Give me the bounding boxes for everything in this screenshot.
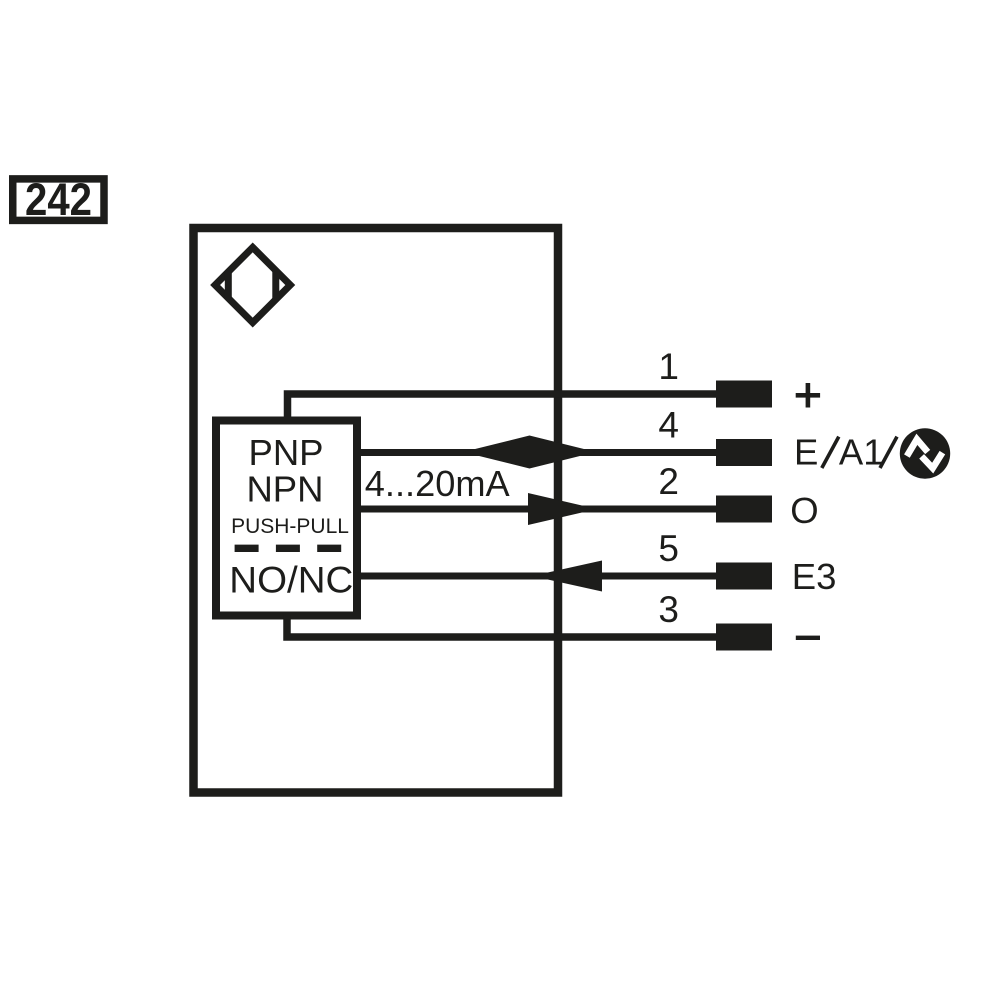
function block box bbox=[216, 421, 357, 616]
input arrow left bbox=[532, 561, 602, 592]
svg-text:3: 3 bbox=[658, 589, 679, 630]
svg-text:4: 4 bbox=[658, 405, 679, 446]
label + bbox=[796, 383, 820, 408]
svg-text:PNP: PNP bbox=[248, 432, 323, 473]
figure label box 242 bbox=[13, 179, 104, 221]
svg-text:2: 2 bbox=[658, 461, 679, 502]
svg-text:NO/NC: NO/NC bbox=[229, 559, 353, 601]
wire 3 (-) bbox=[287, 615, 717, 637]
svg-text:5: 5 bbox=[658, 528, 679, 569]
terminal 1 bbox=[716, 381, 772, 408]
terminal 3 bbox=[716, 624, 772, 651]
svg-text:4...20mA: 4...20mA bbox=[365, 463, 511, 504]
wire 1 (+) bbox=[288, 394, 718, 417]
svg-text:E: E bbox=[794, 432, 818, 473]
programmable function icon (circle with chevrons) bbox=[900, 428, 950, 478]
svg-text:E3: E3 bbox=[792, 556, 837, 597]
output arrow right bbox=[528, 493, 597, 525]
bidirectional diamond arrow bbox=[463, 436, 596, 469]
wire 5 (E3) bbox=[361, 573, 717, 580]
svg-text:242: 242 bbox=[25, 174, 92, 225]
sensor body rectangle bbox=[194, 228, 559, 793]
svg-text:PUSH-PULL: PUSH-PULL bbox=[231, 515, 349, 538]
svg-text:NPN: NPN bbox=[246, 469, 323, 510]
terminal 2 bbox=[716, 496, 772, 523]
label - bbox=[796, 636, 820, 640]
wire 4 (E/A1) bbox=[361, 449, 717, 456]
dashed separator line bbox=[235, 545, 342, 552]
terminal 4 bbox=[716, 439, 772, 466]
svg-text:O: O bbox=[790, 490, 818, 531]
terminal 5 bbox=[716, 563, 772, 590]
svg-text:1: 1 bbox=[658, 346, 679, 387]
proximity sensor symbol: diamond bbox=[215, 247, 290, 322]
svg-text:A1: A1 bbox=[839, 432, 884, 473]
wire 2 (O, 4...20mA) bbox=[361, 506, 717, 513]
